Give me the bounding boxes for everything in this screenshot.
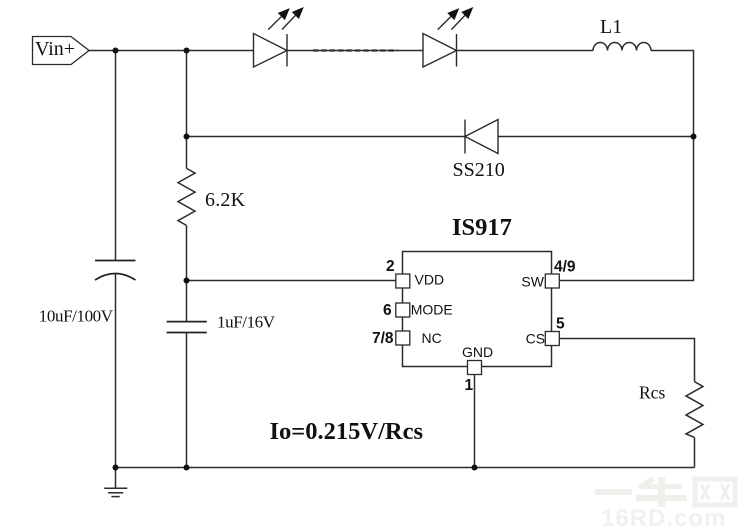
svg-text:GND: GND: [462, 344, 493, 360]
svg-text:1: 1: [465, 377, 474, 394]
svg-text:MODE: MODE: [411, 302, 453, 318]
svg-text:L1: L1: [600, 16, 622, 38]
svg-text:4/9: 4/9: [554, 259, 576, 276]
svg-text:Io=0.215V/Rcs: Io=0.215V/Rcs: [270, 418, 423, 445]
svg-text:7/8: 7/8: [372, 330, 394, 347]
svg-text:5: 5: [556, 316, 565, 333]
svg-text:10uF/100V: 10uF/100V: [39, 306, 114, 325]
svg-text:CS: CS: [526, 331, 545, 347]
svg-text:SW: SW: [521, 274, 544, 290]
svg-text:16RD.com: 16RD.com: [601, 505, 726, 530]
svg-text:IS917: IS917: [452, 214, 512, 241]
svg-text:6.2K: 6.2K: [205, 189, 246, 211]
svg-text:NC: NC: [422, 330, 442, 346]
svg-text:2: 2: [386, 258, 395, 275]
svg-text:VDD: VDD: [415, 272, 445, 288]
svg-text:6: 6: [383, 302, 392, 319]
svg-text:Vin+: Vin+: [35, 38, 75, 60]
svg-text:SS210: SS210: [453, 159, 505, 181]
svg-text:1uF/16V: 1uF/16V: [217, 313, 276, 332]
svg-text:Rcs: Rcs: [639, 383, 665, 403]
